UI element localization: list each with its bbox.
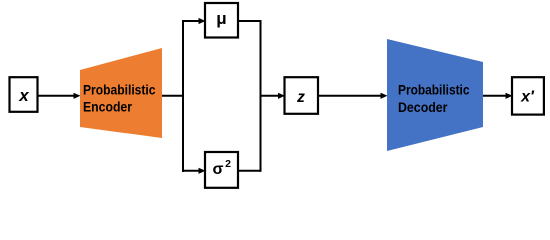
wire split to sigma (182, 170, 200, 172)
wire split to mu (182, 20, 200, 22)
box sigma squared (205, 152, 238, 188)
wire sigma to right bus (238, 170, 262, 172)
encoder trapezoid (80, 48, 162, 138)
right vertical bus (260, 20, 262, 172)
svg-text:Encoder: Encoder (83, 100, 133, 115)
arrowhead into encoder (74, 93, 81, 99)
svg-text:x: x (18, 86, 30, 105)
wire x to encoder (38, 95, 75, 97)
arrowhead into z (278, 93, 285, 99)
wire z to decoder (318, 95, 382, 97)
svg-text:σ: σ (213, 161, 224, 178)
left vertical bus (182, 20, 184, 172)
wire decoder to x prime (483, 95, 507, 97)
wire mu to right bus (238, 20, 262, 22)
box z (285, 77, 319, 114)
svg-text:Decoder: Decoder (398, 100, 448, 115)
svg-text:Probabilistic: Probabilistic (83, 83, 156, 98)
box x (10, 77, 38, 112)
arrowhead into mu (199, 18, 206, 24)
svg-text:2: 2 (225, 158, 231, 170)
box x prime (512, 77, 544, 114)
arrowhead into sigma (199, 168, 206, 174)
arrowhead into x prime (506, 93, 513, 99)
svg-text:x′: x′ (520, 88, 535, 105)
wire bus to z (260, 95, 280, 97)
arrowhead into decoder (381, 93, 388, 99)
box mu (205, 3, 238, 38)
svg-text:Probabilistic: Probabilistic (398, 83, 470, 98)
wire encoder to split junction (162, 95, 184, 97)
svg-text:z: z (296, 89, 305, 106)
decoder trapezoid (387, 39, 483, 151)
svg-text:μ: μ (216, 9, 226, 28)
